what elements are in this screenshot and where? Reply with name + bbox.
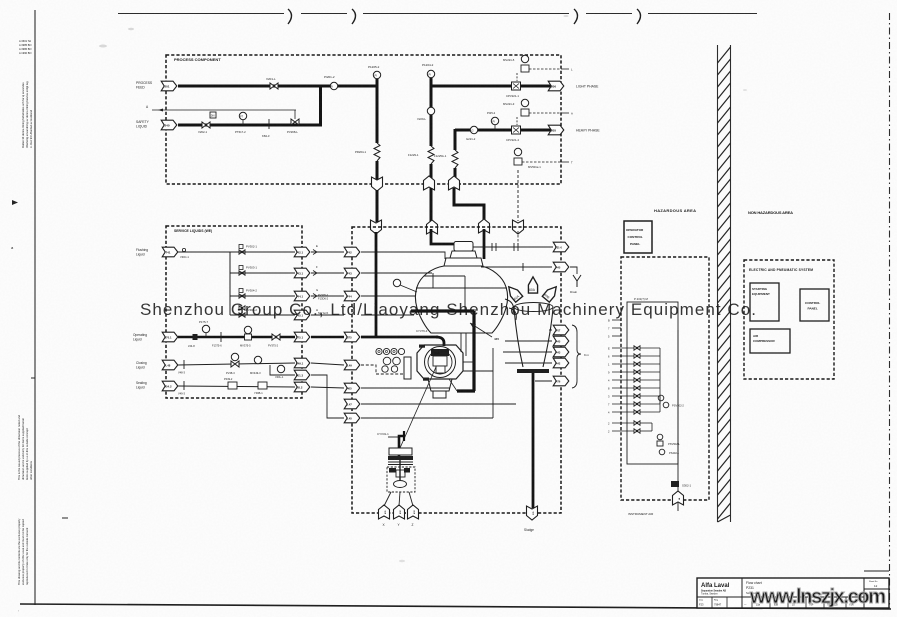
motor label plate (431, 349, 449, 356)
node 240 (161, 120, 177, 130)
tick F1375-6 (220, 332, 222, 342)
zone mark arrow (12, 200, 18, 205)
wire thick bottom to motor (457, 389, 475, 392)
node 742 (344, 247, 360, 257)
wire flushing main (178, 251, 230, 253)
wire 744 to bowl (361, 295, 416, 297)
CYV31 dark plate (388, 456, 413, 460)
scan noise (0, 0, 1, 1)
wire thick 431 to neck (431, 229, 454, 244)
instrument PT617-2 (239, 112, 246, 119)
instrument P1205-2 (373, 71, 380, 78)
node 375.1 (294, 332, 310, 342)
solenoid rack dashed box (621, 257, 709, 500)
wire frame right vertical (492, 348, 494, 418)
motor dark bolt 2 (423, 378, 429, 381)
valve PV268-L (291, 119, 299, 125)
wire link 744 (311, 295, 344, 297)
node 711 up pentagon (479, 219, 490, 233)
wire link 501.3 jog (311, 375, 344, 418)
node 745 up pentagon (427, 220, 438, 234)
tick K84-3 (268, 119, 270, 129)
node 370.1 (162, 332, 178, 342)
node L45 (344, 413, 360, 423)
valve G221-2 (470, 126, 477, 133)
node L49.1 (294, 358, 310, 368)
instrument P1204-2 top of light riser (427, 70, 434, 77)
wire L49 dashed jog (361, 365, 405, 374)
device DN (210, 112, 216, 118)
wire light phase riser upper (430, 78, 433, 146)
node 742.1 (294, 247, 310, 257)
device Y49B-1 (258, 382, 267, 389)
wire MV221-5 dashed (529, 68, 561, 70)
wire riser PR204-1 thick upper (376, 79, 379, 143)
node 445 upper (553, 262, 569, 272)
wire 740 dashed drop (517, 231, 519, 247)
bowl outline (416, 266, 508, 333)
wire flushing manifold vertical (229, 252, 231, 315)
paper curl mark 1 (288, 9, 292, 24)
node 743 (344, 268, 360, 278)
wire operating thick into machine (361, 336, 438, 339)
scan smudge marks (99, 45, 107, 48)
collar trapezoid upper (450, 251, 477, 258)
stub lines to solenoid rack (612, 319, 621, 321)
starting equipment box (750, 283, 779, 321)
wire operating thick (178, 336, 295, 339)
paper curl mark 4 (637, 9, 641, 24)
arrow 62A (505, 284, 522, 302)
motor body box (433, 356, 447, 366)
wire thick riser 376 down to operating line (375, 232, 378, 337)
operator control panel box (624, 221, 652, 253)
rack bus (659, 348, 661, 412)
margin text block 1 (rotated) (21, 81, 33, 148)
motor ring 1 (425, 347, 456, 378)
wire riser 431 thick (430, 188, 433, 222)
motor ring 2 (428, 350, 452, 374)
flange ticks (491, 243, 493, 251)
PSV502-2 (658, 395, 664, 401)
flex F1225A-1 (452, 150, 458, 168)
left line ticks (31, 377, 35, 379)
valve V201-L (270, 83, 278, 89)
bowl inner line 1 (424, 275, 465, 277)
motor octagon outer (417, 345, 463, 379)
wire link L49 (311, 363, 344, 365)
wire link 65.2 (311, 387, 344, 388)
node Z (408, 505, 419, 519)
motor foot lower (433, 391, 446, 398)
instrument PI25-2 (491, 117, 498, 124)
wire L45 row (361, 417, 493, 419)
wire process feed thick (178, 85, 378, 88)
collar trapezoid lower (444, 258, 483, 266)
motor lower block (436, 366, 445, 373)
label SAFETY LIQUID (136, 120, 150, 129)
valve V229-L circle (427, 107, 434, 114)
wire MV221-3 dashed (529, 112, 561, 114)
node 744.1 (294, 291, 310, 301)
flex PR204-1 (374, 143, 380, 161)
flushing branch 1 (230, 251, 295, 253)
margin text block 2 (rotated) (17, 415, 33, 480)
valve PV48-3 (231, 353, 238, 360)
PS402-1 (659, 449, 665, 455)
gauge cluster c5 (383, 357, 391, 365)
bottom border line (20, 604, 891, 609)
brace 9 m (572, 325, 581, 388)
pipe bend CYV76-3 (436, 337, 444, 346)
wire sealing (178, 386, 295, 387)
instrument P175-7 (202, 325, 209, 332)
node L47 (344, 399, 360, 409)
wire to 501.3 (270, 365, 295, 375)
gauge cluster c2 (383, 348, 389, 354)
wire riser 455-484 jog thick (454, 188, 484, 221)
wire MV221-5 stem (516, 73, 518, 81)
S302-1 (671, 481, 679, 487)
node 205 heavy phase (548, 125, 564, 135)
node 740 down pentagon (513, 220, 524, 234)
arrow 60B (542, 284, 559, 302)
top border line segments (118, 13, 757, 15)
label PROCESS FEED (136, 81, 153, 90)
wire heavy riser lower (454, 168, 457, 178)
electric and pneumatic dashed box (744, 260, 834, 379)
node L49 (344, 360, 360, 370)
node 744 (344, 291, 360, 301)
node V31-0 (553, 242, 569, 252)
funnel body (514, 308, 553, 367)
node 745.1 (294, 310, 310, 320)
gauge cluster c6 (393, 357, 401, 365)
bowl inner vertical (464, 276, 466, 311)
wire safety liquid thick (178, 124, 322, 127)
motor foot (428, 379, 452, 391)
wire MV501a signal drop (517, 170, 519, 221)
bowl inner line 2 (416, 287, 507, 289)
wire riser 376 thick (376, 190, 379, 222)
funnel rim (514, 303, 553, 312)
neck valve box (454, 242, 473, 252)
control panel box (800, 289, 829, 321)
service liquids dashed box (166, 226, 302, 398)
rack inner box (627, 302, 678, 464)
wire link 375 thick (311, 336, 344, 339)
separator dashed box (352, 227, 561, 513)
air compressor box (750, 329, 790, 353)
bowl equator thick (411, 309, 474, 312)
PSV502-L (657, 434, 663, 440)
gauge cluster c4 (398, 348, 404, 354)
wire MV221-3 stem (516, 117, 518, 125)
gauge cluster c1 (376, 348, 382, 354)
wire thick bowl right drop (472, 311, 475, 391)
label Closing Liquid (136, 361, 147, 370)
instrument MV501a-1 (514, 148, 521, 155)
funnel inlet curves (505, 299, 514, 314)
wire link 743 (311, 272, 344, 274)
diagonal to CYV31 (400, 367, 436, 448)
CYV31 outlet stems (384, 492, 391, 506)
node 746 up pentagon (449, 176, 460, 190)
CYV31 upper box (389, 448, 412, 455)
solenoid valves (634, 346, 640, 350)
instrument MV221-3 (521, 99, 528, 106)
flex F1229-1 (428, 146, 434, 164)
node 741 (162, 247, 178, 257)
wire 465 row (361, 387, 450, 389)
node 454.2 (162, 381, 178, 391)
node X (379, 505, 390, 519)
wire heavy phase main thick (455, 129, 553, 132)
wire collar to 445 (481, 266, 552, 268)
wire link 742 (311, 251, 344, 253)
tick V48-3 (183, 360, 185, 369)
wire riser PR204-1 thick lower (376, 161, 379, 180)
wire heavy riser (454, 129, 457, 150)
node Y (394, 505, 405, 519)
wire 745 to bowl (361, 314, 414, 316)
label Operating Liquid (133, 333, 147, 342)
valve PV375-2 (272, 334, 280, 340)
node 201 (161, 81, 177, 91)
left border line (34, 10, 36, 605)
bowl left gauge (393, 279, 400, 286)
label Sealing Liquid (136, 381, 147, 390)
bowl skirt lines (460, 333, 462, 352)
motor right connector 2 (463, 370, 493, 372)
flushing branch 2 (230, 272, 295, 274)
wire thick 484 drop (483, 229, 486, 259)
margin revision text top-left (19, 39, 32, 55)
label Flushing Liquid (136, 248, 148, 257)
process component dashed box (166, 55, 561, 184)
drain Y (570, 267, 577, 274)
node 375 (344, 332, 360, 342)
motor right connector 1 (463, 361, 474, 363)
flushing branch 4 (230, 314, 295, 316)
node 465 (344, 383, 360, 393)
wire MV501a dashed (522, 161, 561, 163)
wire neck to node V31-0 (473, 246, 553, 248)
control valve CPV221-4 (512, 126, 521, 134)
instrument air arrow (673, 491, 684, 505)
sludge pipe (532, 373, 535, 508)
right column (864, 570, 889, 572)
margin text block 3 (rotated) (17, 518, 29, 585)
node 743.1 (294, 268, 310, 278)
node 747 hourglass (372, 177, 383, 191)
wire light phase main thick (431, 85, 553, 88)
node 476 (553, 376, 569, 386)
node 501.3 (294, 370, 310, 380)
wire closing (178, 363, 295, 365)
instrument MV375-5 (244, 326, 251, 333)
device P049-2 (228, 382, 237, 389)
gauge cluster c7 (382, 366, 388, 372)
node 206 light phase (548, 81, 564, 91)
control valve CPV221-1 (512, 82, 521, 90)
strainer L54-8 (193, 334, 198, 340)
wire safety join riser (319, 85, 322, 126)
paper curl mark 3 (574, 9, 578, 24)
wire light phase riser lower (430, 164, 433, 178)
instrument PI201-2 (330, 82, 337, 89)
right border dash-dot (889, 13, 891, 608)
node 761 hourglass on separator box top (371, 220, 382, 234)
node 707 (553, 325, 569, 335)
instrument MV449-3 (254, 356, 261, 363)
node 445b (553, 336, 569, 346)
tick V49-3 (183, 381, 185, 390)
node 744 up pentagon (424, 176, 435, 190)
paper curl mark 2 (352, 9, 356, 24)
arrow 60A (528, 277, 537, 293)
gauge cluster c3 (391, 348, 397, 354)
wire 742 to bowl (361, 252, 445, 259)
CYV31 side blocks (389, 468, 396, 473)
wire L47 row (361, 403, 516, 405)
CYV31 inlet pipe thick (399, 436, 404, 456)
funnel base flange (517, 369, 549, 373)
node sludge (527, 506, 538, 520)
node 65.2 (294, 382, 310, 392)
tick on collar line (522, 263, 524, 271)
wire 743 to bowl (361, 272, 432, 274)
flushing branch 3 (230, 295, 295, 297)
bowl inlet step (432, 273, 434, 288)
node L48 (162, 360, 178, 370)
valve V262-1 (202, 122, 210, 128)
wire safety thin pilot line (152, 109, 296, 111)
motor left pillar (404, 357, 411, 379)
motor dark bolt 1 (419, 345, 425, 348)
diagonal foot (449, 379, 457, 391)
instrument MV221-5 (521, 55, 528, 62)
valve V40L-1 (277, 365, 284, 372)
node 442 (553, 358, 569, 368)
tick V30C-1 (182, 248, 185, 251)
node 443 (553, 347, 569, 357)
CYV31 lower box (387, 467, 415, 492)
